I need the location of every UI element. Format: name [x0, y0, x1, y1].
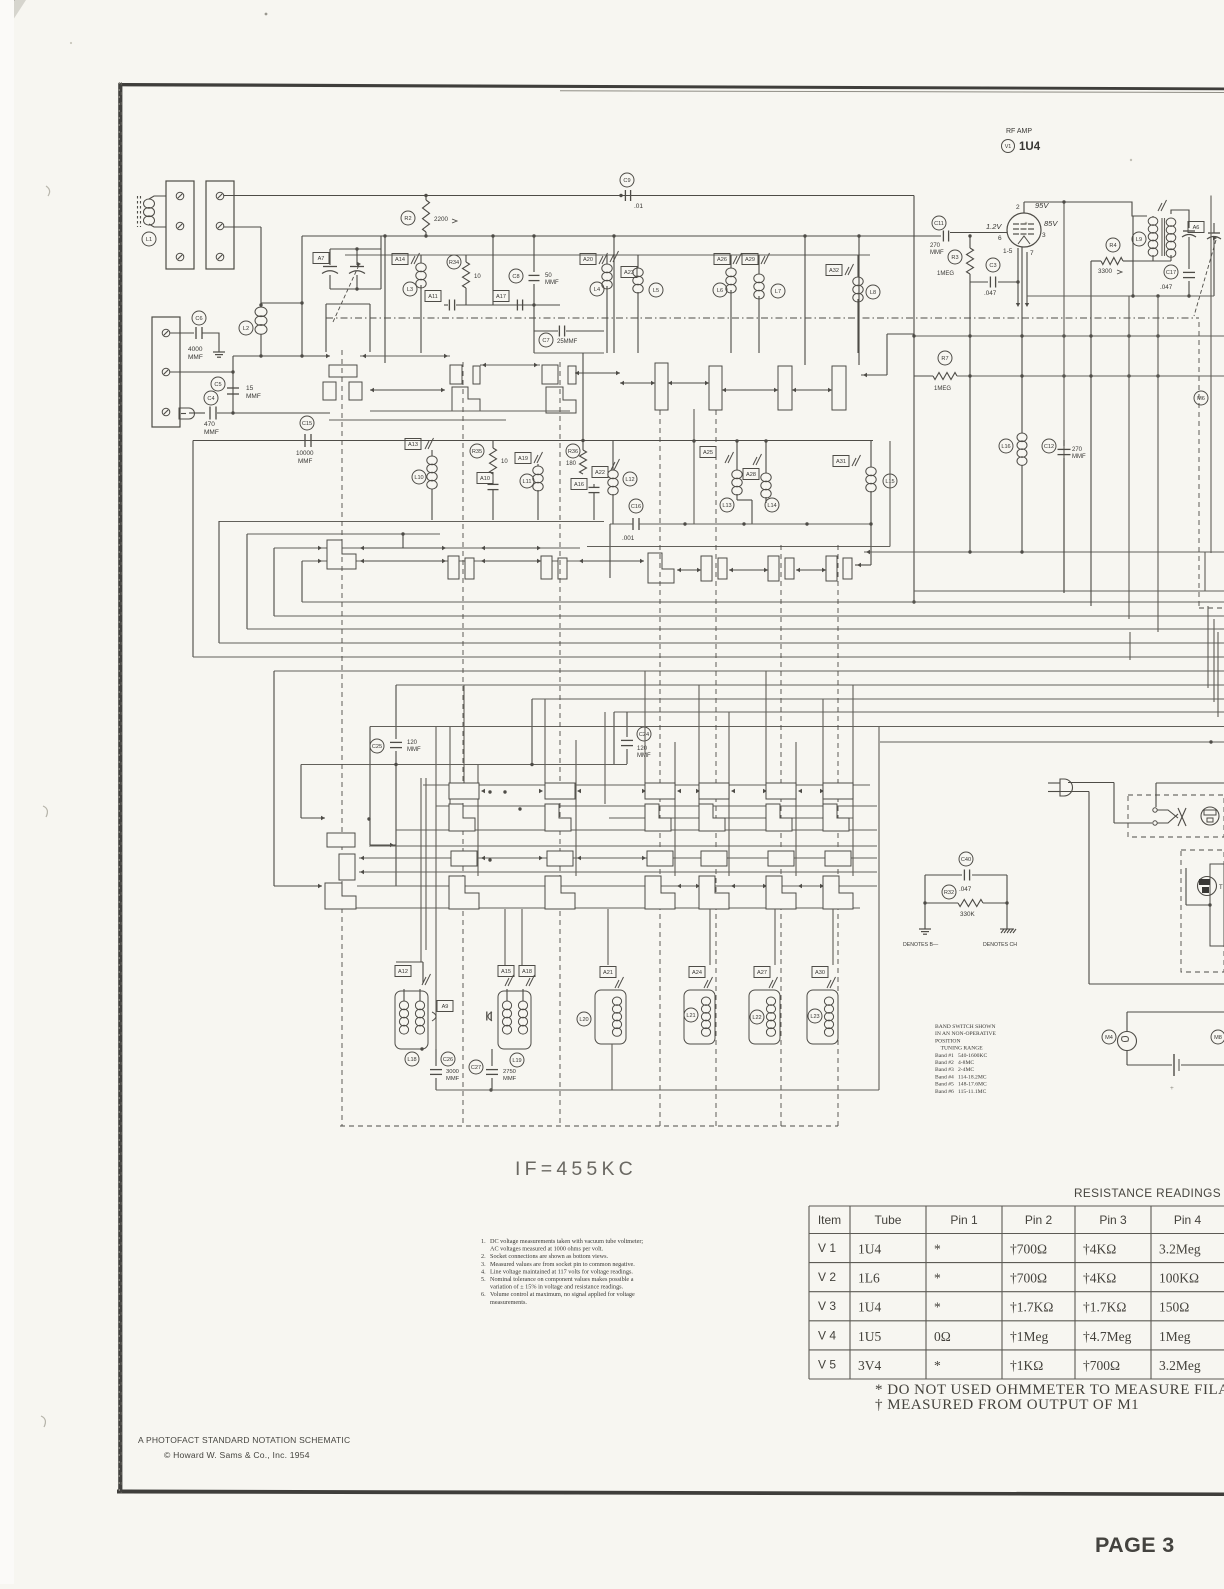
- svg-text:R35: R35: [472, 449, 482, 455]
- svg-text:270: 270: [1072, 447, 1083, 453]
- svg-text:†4.7Meg: †4.7Meg: [1083, 1329, 1132, 1344]
- svg-text:C12: C12: [1044, 444, 1054, 450]
- svg-text:1MEG: 1MEG: [934, 386, 951, 392]
- svg-text:R32: R32: [944, 890, 954, 896]
- svg-text:C26: C26: [443, 1057, 453, 1063]
- svg-text:120: 120: [407, 740, 418, 746]
- svg-text:A21: A21: [603, 970, 613, 976]
- svg-text:A12: A12: [398, 969, 408, 975]
- svg-text:DENOTES CH: DENOTES CH: [983, 942, 1017, 948]
- svg-text:MMF: MMF: [204, 429, 219, 436]
- svg-text:POSITION: POSITION: [935, 1038, 960, 1044]
- svg-text:3000: 3000: [446, 1069, 459, 1075]
- svg-text:85V: 85V: [1044, 219, 1058, 228]
- svg-text:A16: A16: [574, 482, 584, 488]
- svg-text:L22: L22: [752, 1015, 761, 1021]
- svg-text:L6: L6: [717, 288, 723, 294]
- svg-text:MMF: MMF: [1072, 454, 1086, 460]
- svg-text:15: 15: [246, 385, 254, 392]
- svg-text:3.: 3.: [481, 1261, 486, 1268]
- svg-text:L23: L23: [810, 1014, 819, 1020]
- svg-text:IF=455KC: IF=455KC: [515, 1158, 637, 1180]
- svg-text:L16: L16: [1001, 444, 1010, 450]
- svg-text:+: +: [1170, 1085, 1174, 1092]
- svg-text:Pin 3: Pin 3: [1099, 1213, 1127, 1227]
- svg-text:V 5: V 5: [818, 1357, 836, 1371]
- svg-text:A10: A10: [480, 476, 490, 482]
- svg-text:MMF: MMF: [637, 753, 651, 759]
- svg-text:A22: A22: [595, 470, 605, 476]
- svg-text:3.2Meg: 3.2Meg: [1159, 1242, 1201, 1257]
- svg-text:A9: A9: [442, 1004, 449, 1010]
- svg-text:V1: V1: [1005, 144, 1012, 150]
- svg-text:A26: A26: [717, 257, 727, 263]
- svg-text:*: *: [934, 1271, 941, 1286]
- svg-text:A27: A27: [757, 970, 767, 976]
- svg-text:A29: A29: [745, 257, 755, 263]
- svg-text:V 4: V 4: [818, 1328, 836, 1342]
- svg-text:Nominal tolerance on component: Nominal tolerance on component values ma…: [490, 1276, 634, 1283]
- svg-text:R2: R2: [404, 216, 411, 222]
- svg-text:Item: Item: [818, 1213, 841, 1227]
- svg-text:†4KΩ: †4KΩ: [1083, 1242, 1116, 1257]
- svg-text:A30: A30: [815, 970, 825, 976]
- svg-text:10000: 10000: [296, 450, 314, 457]
- svg-text:C4: C4: [207, 396, 214, 402]
- svg-text:2750: 2750: [503, 1069, 516, 1075]
- svg-text:1L6: 1L6: [858, 1271, 880, 1286]
- svg-text:Line voltage maintained at 117: Line voltage maintained at 117 volts for…: [490, 1268, 633, 1275]
- svg-text:L5: L5: [653, 288, 659, 294]
- svg-text:PAGE 3: PAGE 3: [1095, 1533, 1175, 1557]
- svg-text:* DO NOT USED OHMMETER TO MEAS: * DO NOT USED OHMMETER TO MEASURE FILAME: [875, 1382, 1224, 1398]
- svg-text:.047: .047: [1160, 284, 1173, 291]
- svg-text:Pin 2: Pin 2: [1025, 1213, 1053, 1227]
- svg-text:M8: M8: [1214, 1035, 1222, 1041]
- svg-text:A PHOTOFACT STANDARD NOTATION: A PHOTOFACT STANDARD NOTATION SCHEMATIC: [138, 1435, 350, 1445]
- svg-text:A18: A18: [522, 969, 532, 975]
- svg-text:1-5: 1-5: [1003, 248, 1013, 255]
- svg-text:AC voltages measured at 1000 o: AC voltages measured at 1000 ohms per vo…: [490, 1246, 604, 1253]
- svg-text:RESISTANCE READINGS: RESISTANCE READINGS: [1074, 1186, 1221, 1200]
- svg-text:V 2: V 2: [818, 1270, 836, 1284]
- svg-text:A24: A24: [692, 970, 702, 976]
- svg-text:L8: L8: [870, 290, 876, 296]
- svg-text:C24: C24: [639, 732, 649, 738]
- svg-text:1.: 1.: [481, 1238, 486, 1245]
- svg-text:4.: 4.: [481, 1268, 486, 1275]
- svg-text:TUNING RANGE: TUNING RANGE: [935, 1046, 983, 1052]
- svg-text:3: 3: [1042, 232, 1046, 239]
- svg-text:MMF: MMF: [298, 458, 312, 465]
- svg-text:2200: 2200: [434, 216, 449, 223]
- svg-text:A31: A31: [836, 459, 846, 465]
- svg-text:100KΩ: 100KΩ: [1159, 1271, 1199, 1286]
- svg-text:DENOTES B—: DENOTES B—: [903, 942, 939, 948]
- svg-text:Band #4 114-18.2MC: Band #4 114-18.2MC: [935, 1074, 987, 1080]
- svg-text:180: 180: [566, 461, 577, 467]
- svg-text:†700Ω: †700Ω: [1010, 1271, 1047, 1286]
- svg-text:C15: C15: [302, 421, 312, 427]
- svg-text:V 1: V 1: [818, 1241, 836, 1255]
- svg-text:L3: L3: [407, 287, 413, 293]
- svg-text:L10: L10: [414, 475, 423, 481]
- svg-text:A6: A6: [1193, 225, 1200, 231]
- svg-text:R34: R34: [449, 260, 459, 266]
- svg-text:†700Ω: †700Ω: [1083, 1358, 1120, 1373]
- svg-text:6.: 6.: [481, 1291, 486, 1298]
- svg-text:1U5: 1U5: [858, 1329, 881, 1344]
- svg-text:120: 120: [637, 746, 648, 752]
- svg-text:A13: A13: [408, 442, 418, 448]
- svg-text:RF AMP: RF AMP: [1006, 128, 1032, 135]
- svg-text:270: 270: [930, 243, 941, 249]
- svg-text:†1.7KΩ: †1.7KΩ: [1083, 1300, 1126, 1315]
- svg-text:C6: C6: [195, 316, 202, 322]
- svg-text:MMF: MMF: [407, 747, 421, 753]
- svg-text:10: 10: [474, 274, 481, 280]
- svg-text:150Ω: 150Ω: [1159, 1300, 1189, 1315]
- svg-text:.047: .047: [959, 886, 972, 893]
- svg-text:†1.7KΩ: †1.7KΩ: [1010, 1300, 1053, 1315]
- svg-text:2: 2: [1016, 204, 1020, 211]
- svg-text:M6: M6: [1197, 396, 1205, 402]
- svg-text:L11: L11: [523, 479, 532, 485]
- svg-text:A25: A25: [703, 450, 713, 456]
- svg-text:L12: L12: [625, 477, 634, 483]
- svg-text:L7: L7: [775, 289, 781, 295]
- svg-text:3V4: 3V4: [858, 1358, 881, 1373]
- svg-text:*: *: [934, 1242, 941, 1257]
- svg-text:M4: M4: [1105, 1035, 1113, 1041]
- svg-text:Band #5 148-17.6MC: Band #5 148-17.6MC: [935, 1082, 987, 1088]
- svg-text:C5: C5: [214, 382, 221, 388]
- svg-text:A19: A19: [518, 456, 528, 462]
- svg-text:L14: L14: [767, 503, 776, 509]
- svg-text:MMF: MMF: [188, 354, 203, 361]
- svg-text:4000: 4000: [188, 346, 203, 353]
- svg-text:330K: 330K: [960, 911, 976, 918]
- svg-text:C11: C11: [934, 221, 944, 227]
- svg-text:470: 470: [204, 421, 215, 428]
- svg-text:L13: L13: [722, 503, 731, 509]
- svg-text:C16: C16: [631, 504, 641, 510]
- svg-text:C7: C7: [542, 338, 549, 344]
- svg-text:C27: C27: [471, 1065, 481, 1071]
- svg-text:.01: .01: [634, 203, 643, 210]
- svg-text:Pin 4: Pin 4: [1174, 1213, 1202, 1227]
- svg-text:C8: C8: [512, 274, 519, 280]
- svg-text:3.2Meg: 3.2Meg: [1159, 1358, 1201, 1373]
- svg-text:95V: 95V: [1035, 201, 1049, 210]
- svg-text:R3: R3: [951, 255, 958, 261]
- svg-text:25MMF: 25MMF: [557, 339, 578, 345]
- svg-text:R4: R4: [1109, 243, 1116, 249]
- svg-text:T: T: [1219, 885, 1223, 891]
- svg-text:2.: 2.: [481, 1253, 486, 1260]
- svg-text:1Meg: 1Meg: [1159, 1329, 1191, 1344]
- svg-text:Band #1 540-1600KC: Band #1 540-1600KC: [935, 1053, 987, 1059]
- svg-text:MMF: MMF: [503, 1076, 517, 1082]
- svg-text:†1KΩ: †1KΩ: [1010, 1358, 1043, 1373]
- svg-text:A7: A7: [318, 256, 325, 262]
- svg-text:*: *: [934, 1358, 941, 1373]
- svg-text:L18: L18: [407, 1057, 416, 1063]
- svg-text:L4: L4: [594, 287, 600, 293]
- svg-text:L20: L20: [579, 1017, 588, 1023]
- svg-text:C25: C25: [372, 744, 382, 750]
- svg-text:A32: A32: [829, 268, 839, 274]
- svg-text:.047: .047: [984, 290, 997, 297]
- svg-text:A11: A11: [428, 294, 438, 300]
- svg-text:Band #6 115-11.1MC: Band #6 115-11.1MC: [935, 1089, 987, 1095]
- svg-text:†1Meg: †1Meg: [1010, 1329, 1048, 1344]
- svg-text:*: *: [934, 1300, 941, 1315]
- svg-text:C17: C17: [1166, 270, 1176, 276]
- svg-text:1U4: 1U4: [1019, 141, 1041, 153]
- svg-text:Volume control at maximum, no: Volume control at maximum, no signal app…: [490, 1291, 635, 1298]
- svg-text:10: 10: [501, 459, 508, 465]
- svg-text:1MEG: 1MEG: [937, 271, 954, 277]
- svg-text:V 3: V 3: [818, 1299, 836, 1313]
- svg-text:IN AN NON-OPERATIVE: IN AN NON-OPERATIVE: [935, 1031, 996, 1037]
- svg-text:L19: L19: [512, 1058, 521, 1064]
- svg-text:Band #3 2-4MC: Band #3 2-4MC: [935, 1067, 974, 1073]
- svg-text:1.2V: 1.2V: [986, 222, 1002, 231]
- svg-text:A15: A15: [501, 969, 511, 975]
- svg-text:A20: A20: [583, 257, 593, 263]
- svg-text:MMF: MMF: [930, 250, 944, 256]
- svg-text:variation of ± 15% in voltage: variation of ± 15% in voltage and resist…: [490, 1284, 624, 1291]
- svg-text:5.: 5.: [481, 1276, 486, 1283]
- svg-text:L1: L1: [146, 237, 152, 243]
- svg-text:1U4: 1U4: [858, 1300, 881, 1315]
- svg-text:BAND SWITCH SHOWN: BAND SWITCH SHOWN: [935, 1024, 996, 1030]
- svg-text:1U4: 1U4: [858, 1242, 881, 1257]
- svg-text:†700Ω: †700Ω: [1010, 1242, 1047, 1257]
- svg-text:R36: R36: [568, 449, 578, 455]
- svg-text:DC voltage measurements taken: DC voltage measurements taken with vacuu…: [490, 1238, 643, 1245]
- svg-text:R7: R7: [941, 356, 948, 362]
- svg-text:L2: L2: [243, 326, 249, 332]
- svg-text:A14: A14: [395, 257, 405, 263]
- svg-text:6: 6: [998, 235, 1002, 242]
- svg-text:C40: C40: [961, 857, 971, 863]
- svg-text:† MEASURED FROM OUTPUT OF M1: † MEASURED FROM OUTPUT OF M1: [875, 1397, 1139, 1413]
- svg-text:L21: L21: [686, 1013, 695, 1019]
- svg-text:C9: C9: [623, 178, 630, 184]
- svg-text:Socket connections are shown a: Socket connections are shown as bottom v…: [490, 1253, 609, 1260]
- svg-text:Tube: Tube: [875, 1213, 902, 1227]
- svg-text:measurements.: measurements.: [490, 1299, 527, 1306]
- svg-text:A28: A28: [746, 472, 756, 478]
- svg-text:MMF: MMF: [446, 1076, 460, 1082]
- svg-text:†4KΩ: †4KΩ: [1083, 1271, 1116, 1286]
- svg-text:7: 7: [1030, 250, 1034, 257]
- svg-text:Band #2 4-8MC: Band #2 4-8MC: [935, 1060, 974, 1066]
- svg-text:3300: 3300: [1098, 268, 1113, 275]
- svg-text:Pin 1: Pin 1: [950, 1213, 978, 1227]
- svg-text:MMF: MMF: [246, 393, 261, 400]
- svg-text:C3: C3: [989, 263, 996, 269]
- svg-text:0Ω: 0Ω: [934, 1329, 951, 1344]
- svg-text:.001: .001: [622, 535, 635, 542]
- svg-text:MMF: MMF: [545, 280, 559, 286]
- svg-text:L9: L9: [1136, 237, 1142, 243]
- svg-text:50: 50: [545, 273, 552, 279]
- svg-text:A17: A17: [496, 294, 506, 300]
- svg-text:© Howard W. Sams & Co., Inc. 1: © Howard W. Sams & Co., Inc. 1954: [164, 1450, 310, 1460]
- svg-text:Measured values are from socke: Measured values are from socket pin to c…: [490, 1261, 635, 1268]
